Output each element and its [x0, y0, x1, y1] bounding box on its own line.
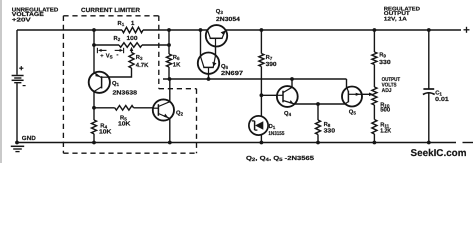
svg-text:2N3638: 2N3638: [113, 90, 138, 97]
svg-text:C1: C1: [435, 89, 442, 96]
svg-text:330: 330: [324, 128, 336, 135]
svg-text:1.2K: 1.2K: [380, 127, 392, 134]
svg-text:1K: 1K: [173, 62, 181, 69]
svg-text:R3: R3: [136, 55, 143, 61]
svg-text:10K: 10K: [118, 121, 131, 128]
svg-text:Q6: Q6: [221, 63, 229, 70]
svg-text:1N3155: 1N3155: [268, 131, 284, 137]
svg-text:2N697: 2N697: [221, 70, 244, 77]
svg-text:R1: R1: [118, 21, 125, 27]
svg-text:GND: GND: [22, 135, 37, 142]
svg-text:10K: 10K: [99, 129, 112, 136]
svg-text:4.7K: 4.7K: [136, 62, 149, 69]
svg-text:Q3: Q3: [216, 8, 224, 15]
svg-text:-: -: [116, 52, 118, 59]
svg-text:100: 100: [127, 35, 139, 42]
svg-text:+20V: +20V: [12, 17, 31, 23]
svg-text:390: 390: [266, 61, 278, 68]
svg-text:Q2: Q2: [176, 110, 184, 117]
svg-text:1: 1: [131, 20, 135, 27]
svg-text:D1: D1: [269, 124, 276, 130]
svg-text:R6: R6: [173, 55, 180, 61]
svg-text:R9: R9: [379, 53, 386, 59]
svg-text:330: 330: [379, 59, 391, 66]
svg-text:R7: R7: [266, 55, 273, 61]
svg-text:R2: R2: [114, 36, 121, 42]
svg-text:Q1: Q1: [112, 80, 120, 87]
svg-text:SeekIC.com: SeekIC.com: [411, 148, 467, 159]
svg-text:VS: VS: [106, 54, 113, 60]
svg-text:Q4: Q4: [284, 110, 292, 117]
svg-text:R4: R4: [100, 123, 107, 129]
svg-text:0.01: 0.01: [435, 96, 449, 103]
svg-text:2N3054: 2N3054: [216, 16, 241, 23]
svg-text:Q2, Q4, Q5 -2N3565: Q2, Q4, Q5 -2N3565: [246, 155, 315, 163]
svg-text:ADJ: ADJ: [382, 88, 392, 94]
svg-text:CURRENT LIMITER: CURRENT LIMITER: [81, 7, 141, 14]
svg-text:500: 500: [380, 107, 391, 114]
svg-text:Q5: Q5: [349, 109, 357, 116]
svg-text:+: +: [100, 53, 104, 59]
svg-text:12V, 1A: 12V, 1A: [384, 17, 407, 23]
svg-text:R8: R8: [324, 122, 331, 128]
